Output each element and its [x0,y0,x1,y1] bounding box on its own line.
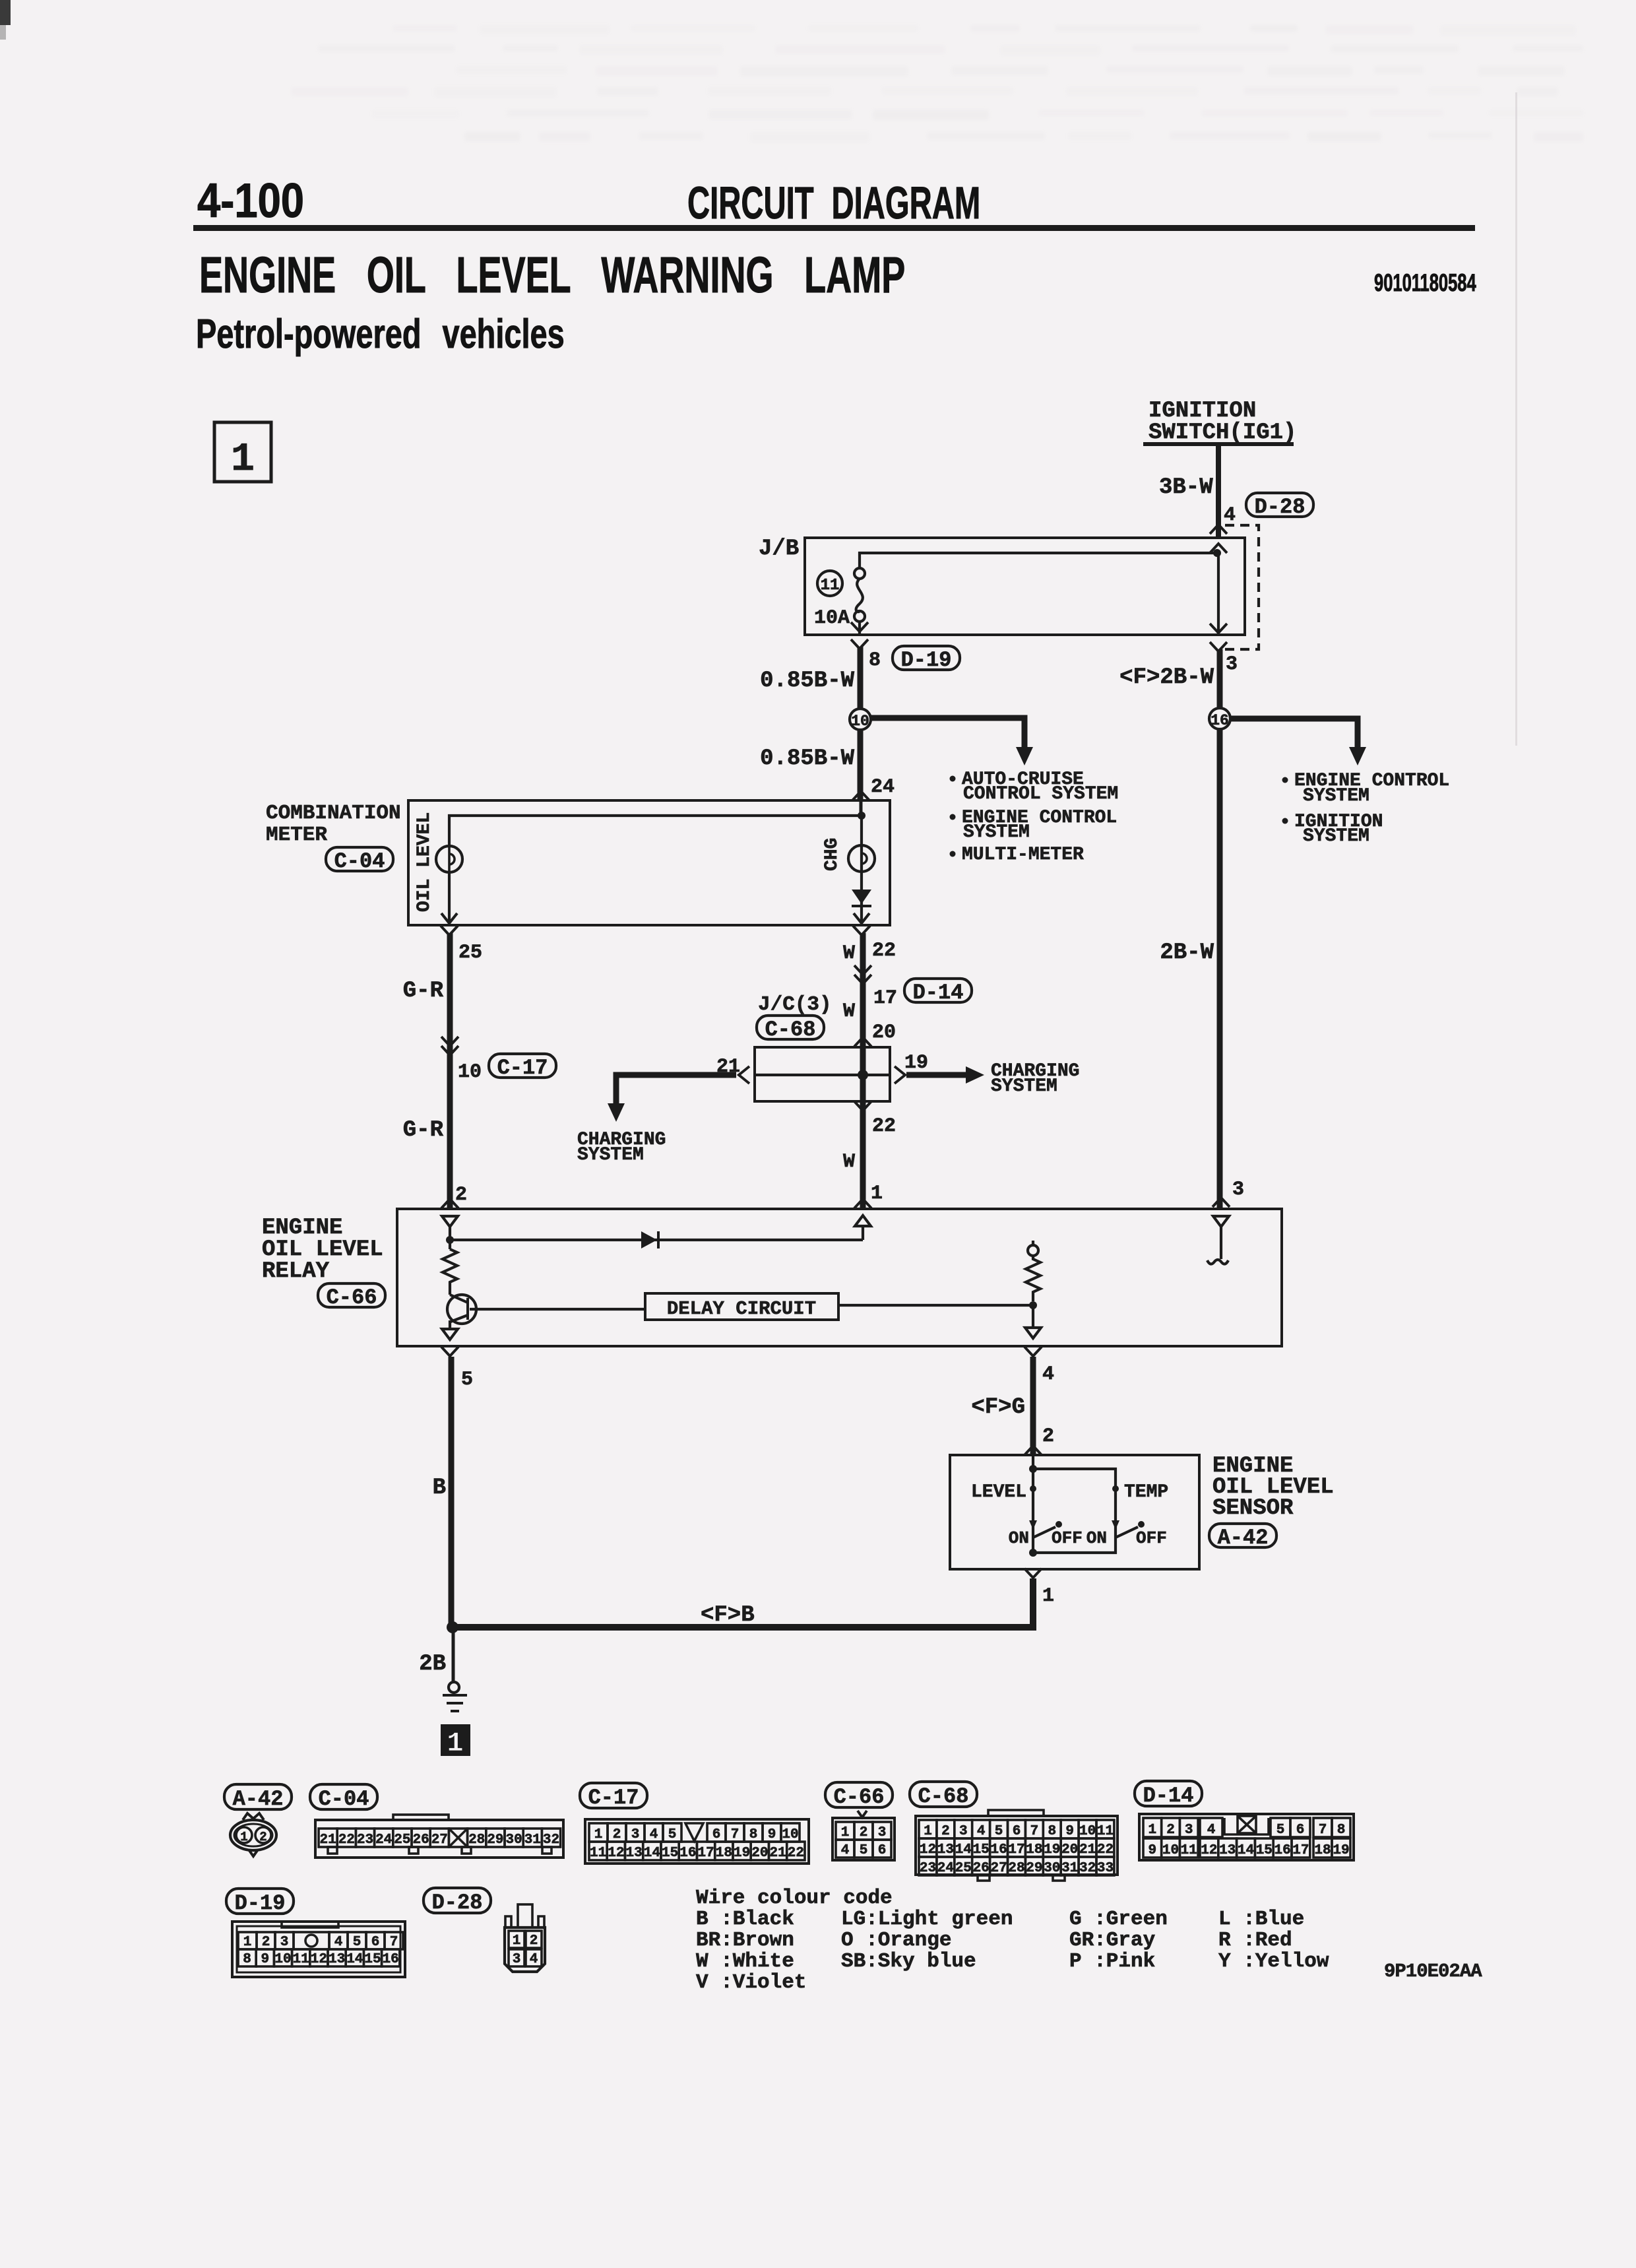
fuse 11 circle label [817,571,842,596]
connector mark leaving relay pin 4 [1024,1347,1042,1356]
svg-text:16: 16 [383,1952,399,1967]
wire lamp to meter bottom [448,872,451,924]
svg-text:13: 13 [329,1952,345,1967]
system list engine control / ignition [1282,771,1450,847]
svg-text:2: 2 [262,1935,270,1950]
wire meter entry to bus [860,800,863,816]
svg-text:29: 29 [1026,1861,1042,1876]
svg-text:2: 2 [1166,1823,1175,1838]
svg-text:12: 12 [608,1846,624,1861]
svg-text:J/B: J/B [759,536,799,562]
arrowhead inside meter right [854,913,869,923]
svg-text:6: 6 [712,1827,721,1842]
svg-text:15: 15 [973,1842,990,1858]
svg-text:5: 5 [668,1827,677,1842]
svg-text:9P10E02AA: 9P10E02AA [1384,1960,1482,1982]
wire delay circuit to resistor R2 [838,1304,1033,1307]
wire R2 junction to pin 4 [1032,1305,1034,1328]
svg-text:Petrol-powered vehicles: Petrol-powered vehicles [196,311,565,357]
svg-text:16: 16 [1211,712,1229,729]
svg-text:1: 1 [594,1827,603,1842]
arrowhead charging system right [966,1066,984,1084]
connector mark entering relay pin 2 [441,1199,458,1208]
arrowhead to auto-cruise systems [1016,747,1033,765]
svg-text:22: 22 [872,940,896,962]
svg-text:SYSTEM: SYSTEM [1303,786,1369,806]
svg-text:19: 19 [904,1052,928,1074]
svg-text:28: 28 [468,1832,485,1848]
arrowhead inside meter left [441,913,457,923]
svg-text:6: 6 [1296,1823,1305,1838]
svg-text:32: 32 [543,1832,559,1848]
svg-text:5: 5 [1276,1823,1285,1838]
svg-text:ON: ON [1009,1528,1029,1548]
wire 0.85B-W from J/B pin 8 down to combination meter [858,647,864,800]
svg-text:9: 9 [261,1952,269,1967]
level switch arrow [1029,1520,1037,1530]
svg-text:DELAY CIRCUIT: DELAY CIRCUIT [667,1298,816,1320]
svg-text:W: W [843,942,855,965]
svg-text:22: 22 [338,1832,355,1848]
svg-text:1: 1 [871,1183,883,1205]
svg-text:R :Red: R :Red [1218,1929,1292,1952]
svg-text:10: 10 [1079,1824,1096,1839]
svg-text:4: 4 [530,1952,538,1967]
svg-text:0.85B-W: 0.85B-W [760,668,854,694]
svg-text:25: 25 [458,942,482,964]
connector C-66 pinout [833,1811,895,1860]
svg-text:1: 1 [231,437,255,482]
svg-text:90101180584: 90101180584 [1374,269,1476,296]
svg-text:2B: 2B [419,1652,446,1677]
svg-text:B :Black: B :Black [696,1908,794,1931]
svg-text:4: 4 [1207,1823,1216,1838]
svg-text:17: 17 [1008,1842,1024,1858]
svg-text:W: W [843,1000,855,1023]
svg-text:11: 11 [1097,1824,1114,1839]
svg-text:6: 6 [371,1935,380,1950]
svg-text:21: 21 [319,1832,336,1848]
svg-text:SENSOR: SENSOR [1212,1496,1294,1521]
junction node meter bus [858,812,865,820]
svg-text:3: 3 [959,1824,968,1839]
svg-text:LG:Light green: LG:Light green [841,1908,1013,1931]
wire F G from relay pin 4 to sensor [1030,1357,1036,1455]
svg-text:A-42: A-42 [1218,1526,1269,1550]
svg-text:C-68: C-68 [918,1784,969,1809]
engine oil level sensor box [950,1455,1199,1569]
wire from bus down right side of J/B [1217,553,1220,635]
combination meter label [266,802,401,847]
svg-text:11: 11 [1181,1843,1197,1858]
connector C-68 label [910,1782,977,1809]
svg-text:Y :Yellow: Y :Yellow [1218,1950,1329,1973]
wire CHG lamp to diode [860,816,863,924]
relay pin 2 contact [442,1216,458,1227]
svg-text:12: 12 [920,1842,936,1858]
svg-text:1: 1 [1042,1585,1054,1607]
wire to charging system right [906,1072,968,1078]
svg-text:ON: ON [1086,1528,1107,1548]
svg-text:22: 22 [872,1115,896,1138]
svg-text:14: 14 [644,1846,660,1861]
connector C-04 pinout [315,1815,563,1858]
connector D-19 label [226,1889,294,1916]
connector mark pin 21 [739,1066,749,1084]
connector mark entering sensor [1024,1446,1042,1455]
junction node sensor top [1029,1465,1037,1473]
svg-text:27: 27 [990,1861,1007,1876]
scan streak right edge [1515,92,1517,746]
svg-text:16: 16 [679,1846,696,1861]
combination meter box [408,800,890,925]
connector D-28 label [1246,493,1313,519]
svg-text:C-17: C-17 [497,1056,548,1080]
svg-text:METER: METER [266,824,327,847]
svg-text:W: W [843,1151,855,1173]
connector A-42 pinout [230,1813,276,1856]
diode D in relay [641,1231,658,1248]
svg-text:7: 7 [1319,1823,1327,1838]
connector D-19 pinout [232,1922,405,1977]
temp switch arrow [1112,1520,1119,1530]
svg-text:SYSTEM: SYSTEM [991,1076,1057,1097]
relay coil hook [1207,1260,1228,1264]
junction node sensor bottom [1029,1549,1037,1557]
svg-text:9: 9 [768,1827,776,1842]
svg-text:5: 5 [353,1935,362,1950]
connector mark pin 19 [895,1066,905,1084]
OIL LEVEL warning lamp [436,846,462,872]
svg-text:GR:Gray: GR:Gray [1069,1929,1156,1952]
svg-text:5: 5 [860,1843,868,1858]
svg-text:22: 22 [1097,1842,1114,1858]
svg-text:4: 4 [1042,1363,1054,1386]
svg-text:BR:Brown: BR:Brown [696,1929,794,1952]
svg-text:16: 16 [990,1842,1007,1858]
svg-text:21: 21 [769,1846,786,1861]
svg-text:11: 11 [590,1846,606,1861]
svg-text:13: 13 [625,1846,642,1861]
svg-text:G-R: G-R [403,1118,444,1143]
svg-text:3: 3 [1185,1823,1193,1838]
svg-text:2B-W: 2B-W [1160,940,1214,965]
svg-text:V :Violet: V :Violet [696,1971,806,1994]
svg-text:D-19: D-19 [901,648,952,672]
connector mark entering J/C [854,1037,871,1047]
svg-text:24: 24 [375,1832,392,1848]
svg-text:13: 13 [1219,1843,1236,1858]
svg-text:31: 31 [524,1832,541,1848]
svg-text:D-19: D-19 [235,1891,286,1916]
svg-text:17: 17 [1292,1843,1309,1858]
connector D-14 label [904,979,972,1005]
svg-text:15: 15 [364,1952,381,1967]
svg-text:A-42: A-42 [233,1787,284,1811]
svg-text:32: 32 [1079,1861,1096,1876]
connector C-68 label [757,1016,824,1042]
CHG warning lamp [848,845,875,872]
svg-text:CONTROL SYSTEM: CONTROL SYSTEM [963,784,1118,804]
header rule [193,225,1475,231]
temp switch OFF contact [1138,1521,1145,1528]
svg-text:1: 1 [1148,1823,1156,1838]
svg-text:2: 2 [259,1830,267,1844]
wire G-R from meter pin 25 down [447,933,453,1209]
level switch OFF contact [1055,1521,1062,1528]
svg-text:27: 27 [431,1832,448,1848]
junction block J/B box [805,538,1245,635]
svg-text:20: 20 [1061,1842,1078,1858]
svg-text:6: 6 [878,1843,887,1858]
svg-text:4: 4 [334,1935,343,1950]
svg-text:10: 10 [782,1827,798,1842]
svg-text:CIRCUIT DIAGRAM: CIRCUIT DIAGRAM [687,177,980,228]
svg-text:OIL LEVEL: OIL LEVEL [414,812,435,912]
branch wire from node 10 to systems arrow [871,718,1024,750]
svg-text:<F>G: <F>G [971,1395,1025,1420]
TEMP terminal node [1112,1485,1119,1492]
relay pin 5 contact [442,1329,458,1340]
svg-text:RELAY: RELAY [262,1259,330,1284]
svg-text:G :Green: G :Green [1069,1908,1168,1931]
svg-text:11: 11 [821,577,840,595]
ground reference box 1 [441,1724,470,1759]
svg-text:B: B [433,1475,446,1501]
svg-text:30: 30 [505,1832,522,1848]
branch wire from node 16 to engine control system [1230,719,1358,750]
svg-text:2: 2 [455,1184,467,1206]
junction node on bus [1213,549,1221,557]
svg-text:10: 10 [458,1061,482,1084]
svg-text:19: 19 [734,1846,750,1861]
svg-text:8: 8 [243,1952,251,1967]
svg-text:8: 8 [1337,1823,1346,1838]
connector mark entering relay pin 3 [1212,1198,1230,1207]
svg-text:5: 5 [995,1824,1003,1839]
svg-text:23: 23 [920,1861,936,1876]
svg-text:C-17: C-17 [588,1786,639,1810]
wire fuse output to J/B bottom [858,622,861,635]
svg-text:18: 18 [1026,1842,1042,1858]
svg-text:<F>2B-W: <F>2B-W [1119,665,1214,690]
svg-text:7: 7 [1030,1824,1039,1839]
relay coil wire pin 3 [1220,1227,1222,1259]
svg-text:7: 7 [731,1827,739,1842]
svg-text:2: 2 [530,1933,538,1949]
relay pin 1 contact [855,1215,871,1226]
svg-text:C-04: C-04 [334,849,385,874]
svg-text:1: 1 [513,1933,521,1949]
splice marks on W wire [854,965,871,975]
svg-text:2: 2 [860,1825,868,1840]
wire 2B to ground [452,1627,455,1682]
connector mark entering meter (C-04 pin 24) [852,791,869,800]
svg-text:SB:Sky blue: SB:Sky blue [841,1950,976,1973]
connector A-42 label [224,1784,292,1811]
svg-text:2: 2 [1042,1425,1054,1448]
faint reverse-page bleed-through texture [291,25,1583,143]
wire colour code block [696,1887,1329,1994]
svg-text:D-28: D-28 [432,1891,483,1915]
svg-text:24: 24 [871,776,895,798]
connector C-68 pinout [916,1810,1117,1881]
label charging system left [577,1130,666,1165]
resistor R2 with terminal [1026,1241,1040,1301]
svg-text:0.85B-W: 0.85B-W [760,746,854,771]
LEVEL terminal node [1030,1485,1036,1492]
svg-text:2: 2 [941,1824,950,1839]
J/B internal bus wire [860,553,1217,569]
connector mark leaving relay pin 5 [441,1347,458,1356]
svg-text:C-68: C-68 [765,1018,816,1042]
svg-text:4: 4 [1224,504,1236,527]
svg-text:2: 2 [613,1827,621,1842]
diode in meter [852,890,871,906]
label charging system right [991,1061,1079,1097]
wire F B from sensor pin 1 to ground junction [451,1578,1033,1627]
wire W from meter pin 22 down to relay pin 1 [860,933,866,1209]
level switch blade to OFF [1033,1527,1055,1538]
dashed extension around D-28 feed [1225,525,1259,649]
connector C-17 pinout [585,1819,809,1863]
svg-text:4-100: 4-100 [197,174,304,228]
svg-text:17: 17 [697,1846,714,1861]
svg-text:D-14: D-14 [913,981,964,1005]
svg-text:1: 1 [243,1935,252,1950]
junction node R2 delay [1029,1301,1037,1309]
connector C-66 label [318,1283,385,1310]
transistor Q1 [447,1295,645,1329]
svg-text:COMBINATION: COMBINATION [266,802,401,825]
svg-text:19: 19 [1044,1842,1060,1858]
wire pin2 to junction [449,1227,451,1249]
svg-text:3: 3 [1232,1179,1244,1201]
svg-text:21: 21 [1079,1842,1096,1858]
connector mark leaving sensor [1024,1569,1042,1578]
connector D-28 label [424,1888,491,1915]
fuse 10A element [854,568,865,622]
svg-text:1: 1 [841,1825,850,1840]
connector D-19 label [893,646,960,672]
svg-text:SYSTEM: SYSTEM [1303,826,1369,847]
connector marks under meter [441,926,458,935]
temp switch blade to OFF [1116,1527,1138,1538]
wire 3B-W from ignition switch to J/B [1216,446,1221,538]
svg-text:8: 8 [749,1827,758,1842]
svg-text:<F>B: <F>B [701,1603,755,1628]
svg-text:12: 12 [311,1952,327,1967]
svg-text:22: 22 [788,1846,804,1861]
svg-text:20: 20 [751,1846,768,1861]
svg-text:W :White: W :White [696,1950,794,1973]
engine oil level sensor label [1212,1454,1334,1521]
svg-text:18: 18 [1314,1843,1331,1858]
connector D-28 pinout [505,1904,545,1972]
svg-text:24: 24 [937,1861,954,1876]
svg-text:L :Blue: L :Blue [1218,1908,1304,1931]
svg-text:9: 9 [1148,1843,1156,1858]
scan artifact top-left corner [0,0,11,25]
relay pin 4 contact [1025,1328,1041,1338]
ground symbol [443,1682,467,1711]
svg-text:10A: 10A [814,607,850,630]
svg-text:CHG: CHG [822,838,842,871]
svg-text:1: 1 [447,1728,463,1759]
svg-text:7: 7 [390,1935,398,1950]
svg-text:10: 10 [274,1952,291,1967]
connector A-42 label [1209,1524,1276,1550]
svg-text:6: 6 [1013,1824,1021,1839]
svg-text:1: 1 [240,1830,247,1844]
svg-text:10: 10 [851,713,869,730]
sensor internal temp branch wire [1033,1469,1116,1553]
splice marks on G-R wire [441,1037,458,1046]
junction node relay left [446,1236,454,1244]
arrowhead to engine control system [1349,747,1366,765]
svg-text:MULTI-METER: MULTI-METER [962,845,1084,865]
relay internal wire pin2 to pin1 [450,1239,863,1241]
svg-text:J/C(3): J/C(3) [758,993,832,1016]
delay circuit box [645,1293,838,1320]
connector C-17 label [489,1054,556,1080]
svg-text:TEMP: TEMP [1124,1482,1168,1503]
junction node in J/C [858,1070,868,1080]
svg-text:11: 11 [293,1952,309,1967]
svg-text:17: 17 [873,987,897,1010]
svg-text:3: 3 [631,1827,640,1842]
connector marks at J/B top (D-28) [1210,525,1227,534]
svg-text:1: 1 [924,1824,932,1839]
svg-text:C-04: C-04 [319,1787,369,1811]
svg-text:D-14: D-14 [1143,1784,1194,1808]
connector C-17 label [580,1783,647,1810]
J/C internal wire [755,1074,890,1076]
svg-text:4: 4 [650,1827,658,1842]
connector mark entering relay pin 1 [854,1199,871,1208]
svg-text:OFF: OFF [1052,1528,1083,1548]
connector D-14 pinout [1139,1814,1354,1860]
wire up to relay pin 1 contact [862,1226,864,1240]
svg-text:9: 9 [1065,1824,1074,1839]
svg-text:16: 16 [1274,1843,1290,1858]
svg-text:18: 18 [716,1846,732,1861]
joint connector J/C(3) box [755,1047,890,1101]
svg-text:SYSTEM: SYSTEM [963,822,1030,843]
svg-text:33: 33 [1097,1861,1114,1876]
junction node ground [447,1621,458,1633]
svg-text:3B-W: 3B-W [1159,475,1213,500]
svg-text:13: 13 [937,1842,954,1858]
svg-text:15: 15 [662,1846,678,1861]
svg-text:25: 25 [955,1861,972,1876]
svg-text:14: 14 [1238,1843,1254,1858]
arrowhead charging system left [608,1103,625,1122]
svg-text:SWITCH(IG1): SWITCH(IG1) [1148,420,1296,445]
wire F 2B-W from J/B down right side [1217,649,1223,1209]
wire B from relay pin 5 down [449,1357,455,1627]
system list auto-cruise etc [950,769,1119,865]
power source IGNITION SWITCH(IG1) [1143,399,1296,446]
svg-text:10: 10 [1162,1843,1179,1858]
figure number box 1 [214,422,271,482]
connector D-14 label [1135,1781,1202,1808]
svg-text:14: 14 [955,1842,972,1858]
svg-text:LEVEL: LEVEL [971,1482,1026,1503]
svg-text:4: 4 [977,1824,986,1839]
svg-text:8: 8 [1048,1824,1056,1839]
connector C-04 label [310,1784,377,1811]
